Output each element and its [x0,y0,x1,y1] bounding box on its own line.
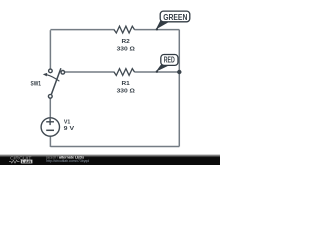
SW1 throw A terminal [49,69,53,73]
svg-text:R2: R2 [122,39,130,45]
wire: R1 right lead to right rail junction [134,71,179,73]
svg-text:SW1: SW1 [31,82,42,88]
svg-text:GREEN: GREEN [163,13,187,22]
net flag RED [156,55,178,73]
net flag GREEN [156,11,190,30]
svg-text:330 Ω: 330 Ω [117,47,136,53]
wire: top rail left segment (corner to R2 left lead) [50,29,114,31]
wire: SW1 throw B to R1 left lead [65,71,115,73]
CircuitLab logo: LAB box [21,160,33,164]
wire: top-left vertical from top rail down to SW1 throw A [49,30,51,69]
wire: bottom rail [50,146,179,148]
wire: right vertical rail [178,30,180,147]
CircuitLab logo: resistor squiggle [9,160,20,163]
wire: SW1 common down to V1 plus terminal [49,98,51,118]
svg-text:RED: RED [164,56,175,65]
SW1 common terminal [48,94,52,98]
svg-text:R1: R1 [122,81,130,87]
V1 plus sign [46,121,54,123]
junction node: R1 net meets right rail [177,70,181,74]
svg-text:330 Ω: 330 Ω [117,89,136,95]
resistor R1 (zigzag body) [114,69,135,76]
wire: bottom-left vertical (bottom rail up to V1 minus terminal) [49,136,51,147]
SW1 throw B terminal [61,71,65,75]
svg-text:V1: V1 [64,119,70,125]
svg-text:LAB: LAB [22,159,32,164]
switch SW1 [43,68,65,98]
V1 minus sign [46,129,54,131]
SW1 lever [51,68,61,94]
footer branding bar [0,154,220,165]
SW1 toggle arrow [47,75,60,81]
svg-text:http://circuitlab.com/c73byqd: http://circuitlab.com/c73byqd [46,159,89,163]
svg-text:9 V: 9 V [64,126,75,132]
voltage source V1 [41,118,59,136]
wire: top rail right segment (R2 right lead to right rail corner) [134,29,179,31]
resistor R2 (zigzag body) [114,26,135,33]
